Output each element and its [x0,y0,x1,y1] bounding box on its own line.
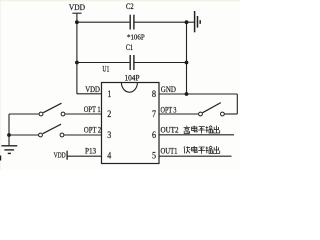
svg-text:104P: 104P [125,74,140,83]
capacitor C1 [130,55,134,70]
svg-text:6: 6 [152,130,156,141]
ground symbol (bottom left) [1,146,17,154]
earth ground (rotated, top right) [195,11,201,32]
svg-text:VDD: VDD [69,3,85,12]
node: VDD/C2 [75,20,79,24]
node: C1/GND rail [185,61,189,65]
wire: P13 VDD to pin 4 [67,155,101,157]
wire: switch S1 left to common rail [9,113,39,115]
svg-text:VDD: VDD [85,85,100,94]
svg-text:OPT 2: OPT 2 [84,126,101,135]
char di [184,146,190,153]
switch S1 (OPT1) [39,103,65,116]
svg-text:2: 2 [107,109,111,120]
svg-text:OPT 3: OPT 3 [161,105,177,114]
wire: pin 3 to switch S2 [64,134,102,136]
wire: C1 row (left segment) [76,62,129,64]
char chu [213,126,220,133]
svg-text:3: 3 [107,130,111,141]
char shu [206,126,213,133]
node: switch common [7,133,11,137]
svg-text:C1: C1 [126,43,133,52]
common rail vertical (left) [8,114,10,146]
VDD power terminal (top left) [72,13,81,94]
IC U1 body [102,83,160,164]
char shu [206,146,213,153]
wire: C2 row (right segment) [135,21,188,23]
wire: C2 row (left segment) [76,21,129,23]
svg-text:1: 1 [107,89,111,100]
switch S3 (OPT3) [199,103,225,116]
wire: pin 2 to switch S1 [65,113,102,115]
wire: C1 row (right segment) [135,62,188,64]
svg-text:OPT 1: OPT 1 [84,105,101,114]
wire: drop to OPT3 switch right terminal [224,113,237,115]
svg-text:VDD: VDD [54,150,67,159]
svg-text:P13: P13 [85,147,96,156]
svg-text:7: 7 [152,109,156,120]
IC notch [121,83,137,93]
node: GND pin row [185,92,189,96]
right vertical rail (C2 node to GND pin row) [186,22,188,94]
svg-text:C2: C2 [126,2,134,11]
node: C2/GND rail [185,20,189,24]
label 高电平输出 (hand-drawn CJK) [184,126,220,134]
wire: GND pin 8 to right [159,93,237,95]
svg-text:5: 5 [152,151,156,162]
VDD terminal bar (P13 row) [66,151,68,160]
wire: pin 5 OUT1 output [159,155,232,157]
char ping [198,147,205,154]
capacitor C2 [130,15,134,30]
wire: far right vertical drop [236,94,238,114]
wire: VDD rail into pin 1 [77,93,102,95]
svg-text:GND: GND [161,85,176,94]
edge artifact bottom-left [0,156,1,161]
char ping [198,127,205,134]
wire: pin 7 to OPT3 switch [159,113,199,115]
switch S2 (OPT2) [39,124,64,137]
wire: pin 6 OUT2 output [159,134,234,136]
label 低电平输出 (hand-drawn CJK) [184,146,220,154]
svg-text:*106P: *106P [127,33,145,42]
char dian [192,126,198,132]
char chu [213,146,220,153]
svg-text:U1: U1 [102,65,109,74]
wire: stub to earth ground (top right) [187,21,195,23]
char gao [184,126,190,134]
svg-text:OUT1: OUT1 [161,147,178,156]
page edge tint (scan artifact) [0,0,240,1]
wire: switch S2 left to common rail [9,134,39,136]
node: VDD/C1 [75,61,79,65]
svg-text:4: 4 [107,151,111,162]
svg-text:OUT2: OUT2 [161,126,179,135]
svg-text:8: 8 [152,89,156,100]
char dian [192,146,198,152]
